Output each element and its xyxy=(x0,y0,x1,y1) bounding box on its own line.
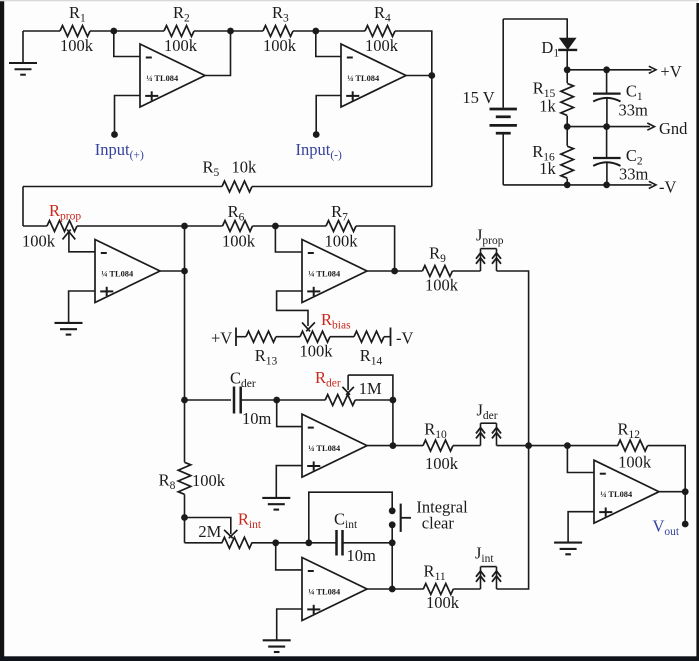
ground (U6 plus input) xyxy=(263,639,291,641)
jumper Jder xyxy=(480,423,482,445)
op-amp U2 (1/4 TL084) xyxy=(341,44,406,107)
wire U3 plus to ground xyxy=(69,291,95,323)
wire R3 to node C xyxy=(293,30,365,32)
wire +V rail xyxy=(567,69,651,71)
svg-text:10m: 10m xyxy=(347,546,377,565)
capacitor Cint xyxy=(335,530,338,556)
svg-text:100k: 100k xyxy=(325,232,359,251)
page border right xyxy=(696,3,699,657)
svg-text:33m: 33m xyxy=(619,165,649,184)
node C2 bottom xyxy=(603,182,610,189)
node R8 bottom / Rint box xyxy=(181,514,188,521)
svg-text:100k: 100k xyxy=(60,36,94,55)
wire U1 output up to node xyxy=(205,31,231,76)
resistor R4 xyxy=(365,26,395,37)
wire U2 plus input to Input(-) xyxy=(316,96,341,135)
wire U6 output xyxy=(367,588,424,590)
svg-text:100k: 100k xyxy=(365,36,399,55)
node U4 output / R7 xyxy=(391,268,398,275)
svg-text:-V: -V xyxy=(659,177,676,196)
resistor R14 xyxy=(330,336,354,338)
Rint wiper arrow and loop xyxy=(185,518,231,535)
resistor R9 xyxy=(422,266,452,277)
wire R1 to node xyxy=(90,30,164,32)
node C1/C2 midpoint xyxy=(603,123,610,130)
wire Jprop to right column xyxy=(497,271,529,446)
capacitor Cder xyxy=(185,399,232,401)
battery 15V xyxy=(490,108,517,111)
svg-text:33m: 33m xyxy=(619,101,649,120)
resistor R15 xyxy=(566,70,568,83)
ground (U5 plus input) xyxy=(262,497,290,499)
resistor R5 xyxy=(252,186,432,188)
svg-text:Gnd: Gnd xyxy=(659,119,688,138)
page border left xyxy=(0,0,4,657)
page border top faint xyxy=(0,0,699,1)
resistor R16 xyxy=(566,127,568,146)
svg-text:¼ TL084: ¼ TL084 xyxy=(600,490,633,499)
terminal Vout dot xyxy=(682,521,689,528)
svg-text:¼ TL084: ¼ TL084 xyxy=(347,74,380,83)
resistor R8 xyxy=(178,462,191,494)
wire U4 output xyxy=(367,270,422,272)
wire R9 to jumper xyxy=(452,270,480,272)
resistor R6 xyxy=(185,225,223,227)
svg-text:2M: 2M xyxy=(198,522,221,541)
wire battery top xyxy=(503,19,567,38)
node C1 top xyxy=(603,66,610,73)
wire U2 output down to R5 row xyxy=(431,76,433,187)
wire integral clear loop xyxy=(309,492,392,543)
svg-text:100k: 100k xyxy=(263,36,297,55)
wire Rint node to Cint xyxy=(276,542,337,544)
potentiometer Rint xyxy=(185,542,223,544)
svg-text:+V: +V xyxy=(211,329,232,348)
ground (U3 plus input) xyxy=(55,322,83,324)
wire U7 minus input xyxy=(567,446,594,473)
wire R2 to node B xyxy=(194,30,263,32)
svg-text:10m: 10m xyxy=(242,409,272,428)
wire switch to U6 output xyxy=(391,525,393,589)
op-amp U4 (1/4 TL084) xyxy=(302,240,367,303)
node Rder right xyxy=(390,397,397,404)
wire Gnd rail xyxy=(567,126,650,128)
wire down to Rprop row xyxy=(22,187,24,227)
page border bottom xyxy=(0,656,699,661)
node Cint right on row xyxy=(389,539,396,546)
svg-text:100k: 100k xyxy=(426,593,460,612)
node Cder / U5 minus xyxy=(273,397,280,404)
svg-text:100k: 100k xyxy=(164,36,198,55)
resistor R10 xyxy=(423,440,453,451)
potentiometer Rprop xyxy=(23,225,47,227)
switch Integral clear xyxy=(389,507,396,514)
svg-text:¼ TL084: ¼ TL084 xyxy=(101,270,134,279)
svg-text:1k: 1k xyxy=(539,97,556,116)
wire Rder node down to U5 output xyxy=(392,400,394,446)
wire U6 minus input xyxy=(276,543,302,570)
node R1/R2/op-amp U1 minus xyxy=(110,28,117,35)
node +V rail xyxy=(564,66,571,73)
svg-text:¼ TL084: ¼ TL084 xyxy=(308,270,341,279)
svg-text:100k: 100k xyxy=(22,232,56,251)
wire U7 plus to ground xyxy=(568,512,594,543)
svg-text:10k: 10k xyxy=(232,158,258,177)
op-amp U5 (1/4 TL084) xyxy=(302,414,367,477)
Rprop wiper arrow xyxy=(69,232,95,252)
svg-text:100k: 100k xyxy=(618,453,652,472)
jumper Jprop xyxy=(480,249,482,271)
ground (U7 plus input) xyxy=(554,542,582,544)
node Rint / U6 minus xyxy=(272,539,279,546)
svg-text:¼ TL084: ¼ TL084 xyxy=(146,74,179,83)
capacitor C2 (polarized) xyxy=(606,127,608,158)
node R3/R4/op-amp U2 minus xyxy=(312,28,319,35)
svg-text:100k: 100k xyxy=(192,471,226,490)
svg-text:1M: 1M xyxy=(359,379,382,398)
node U5 output / Rder xyxy=(390,442,397,449)
wire R10 to jumper xyxy=(453,445,481,447)
wire R4 to right corner xyxy=(395,31,432,76)
capacitor C1 (polarized) xyxy=(606,70,608,94)
terminal Input(-) dot xyxy=(313,131,320,138)
node Gnd rail R15/R16 xyxy=(564,123,571,130)
resistor R3 xyxy=(263,26,293,37)
node Cder left / column xyxy=(181,397,188,404)
node U7 minus branch xyxy=(564,442,571,449)
wire U4 plus to Rbias wiper xyxy=(277,291,308,326)
svg-text:100k: 100k xyxy=(300,342,334,361)
resistor R13 xyxy=(236,336,246,338)
diode D1 xyxy=(560,38,575,49)
potentiometer Rbias xyxy=(276,336,300,338)
svg-text:¼ TL084: ¼ TL084 xyxy=(308,444,341,453)
op-amp U3 (1/4 TL084) xyxy=(95,240,160,303)
op-amp U1 (1/4 TL084) xyxy=(140,44,205,107)
resistor R7 xyxy=(326,221,356,232)
resistor R1 xyxy=(60,26,90,37)
wire U5 plus to ground xyxy=(276,466,302,498)
wire U2 output xyxy=(406,75,432,77)
wire main left column xyxy=(184,226,186,462)
wire U5 output xyxy=(367,445,423,447)
wire U5 minus input xyxy=(277,400,302,427)
node Rprop / R6 / column xyxy=(181,223,188,230)
svg-text:100k: 100k xyxy=(222,232,256,251)
resistor R2 xyxy=(164,26,194,37)
svg-text:1k: 1k xyxy=(539,159,556,178)
wire node to U4 minus xyxy=(275,226,302,252)
wire U3 output xyxy=(160,270,185,272)
Rbias wiper arrow xyxy=(302,322,310,331)
terminal +V (bias) xyxy=(235,328,237,347)
Rder wiper arrow and loop xyxy=(347,375,349,390)
svg-text:¼ TL084: ¼ TL084 xyxy=(308,588,341,597)
wire Jder to summing node xyxy=(497,445,529,447)
svg-text:100k: 100k xyxy=(425,454,459,473)
svg-text:15 V: 15 V xyxy=(462,88,494,107)
arrow Gnd xyxy=(647,123,654,130)
svg-text:100k: 100k xyxy=(425,276,459,295)
svg-text:clear: clear xyxy=(422,513,455,532)
resistor R12 xyxy=(618,440,648,451)
wire R6 to node xyxy=(253,225,327,227)
potentiometer Rder xyxy=(277,399,326,401)
node R16 bottom xyxy=(564,182,571,189)
wire U6 plus to ground xyxy=(277,609,302,640)
terminal Input(+) dot xyxy=(111,131,118,138)
wire node to U1 minus input xyxy=(114,31,140,57)
wire node to U2 minus input xyxy=(316,31,341,57)
node Cint left / clear switch xyxy=(305,539,312,546)
wire U1 plus input to Input(+) xyxy=(115,96,141,135)
wire R7 feedback down xyxy=(356,226,395,271)
wire -V rail xyxy=(503,184,651,186)
wire Jint up to summing node xyxy=(497,446,529,589)
wire R12 feedback down xyxy=(648,446,686,492)
node U7 output xyxy=(682,488,689,495)
wire summing row xyxy=(529,445,618,447)
wire U7 output xyxy=(659,491,685,493)
node summing junction xyxy=(525,442,532,449)
node U2 output / feedback xyxy=(428,72,435,79)
arrow -V xyxy=(649,181,656,188)
op-amp U7 (1/4 TL084) xyxy=(594,460,659,523)
op-amp U6 (1/4 TL084) xyxy=(302,558,367,621)
ground (input stage) xyxy=(22,31,24,63)
jumper Jint xyxy=(480,567,482,589)
node R2/R3/U1 output xyxy=(227,28,234,35)
wire Vout stub xyxy=(684,492,686,524)
terminal -V (bias) xyxy=(390,328,392,347)
wire top row xyxy=(23,30,60,32)
svg-text:-V: -V xyxy=(396,329,413,348)
resistor R11 xyxy=(423,584,453,595)
wire R11 to jumper xyxy=(453,588,480,590)
svg-text:+V: +V xyxy=(660,62,681,81)
arrow +V xyxy=(649,66,656,73)
node U3 output xyxy=(181,268,188,275)
node U6 output xyxy=(389,586,396,593)
node R6/R7/U4 minus xyxy=(272,223,279,230)
